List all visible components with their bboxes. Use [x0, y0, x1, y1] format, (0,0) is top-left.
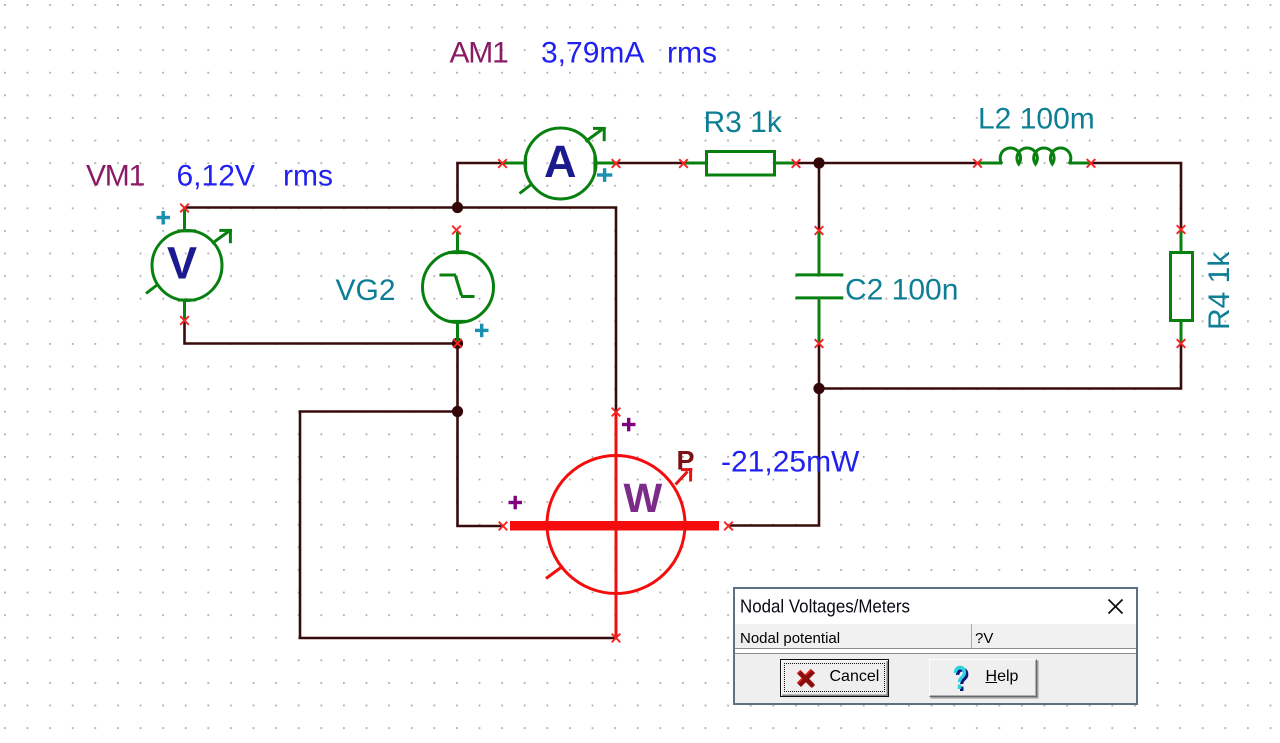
voltmeter VM1 body	[146, 210, 232, 321]
terminal x VG2 bottom	[453, 339, 462, 348]
wire: R4 bottom left to node under C2	[819, 344, 1181, 389]
plus sign wattmeter top	[622, 418, 636, 432]
terminal x VM1 top	[180, 204, 189, 213]
svg-text:Nodal Voltages/Meters: Nodal Voltages/Meters	[740, 595, 910, 616]
terminal x AM1 right	[612, 159, 621, 168]
button Cancel	[780, 659, 890, 697]
terminal x VG2 top	[452, 226, 461, 235]
resistor R4	[1171, 231, 1193, 344]
svg-text:L2 100m: L2 100m	[978, 103, 1095, 136]
svg-text:rms: rms	[283, 160, 333, 193]
wire: J2 left, down, right to wattmeter bottom voltage terminal	[300, 412, 616, 639]
wire: L2 right then down to R4 top	[1090, 163, 1182, 230]
wire: VM1 top to node J1	[185, 206, 458, 209]
terminal x R4 bottom	[1177, 339, 1186, 348]
svg-text:R3 1k: R3 1k	[704, 106, 783, 139]
terminal x L2 right	[1087, 159, 1096, 168]
terminal x W1 right	[724, 522, 733, 531]
wire: J1 right then down to wattmeter voltage top terminal	[458, 208, 617, 413]
terminal x L2 left	[973, 159, 982, 168]
svg-text:R4 1k: R4 1k	[1203, 251, 1236, 330]
junction node VG2 bottom	[452, 338, 463, 349]
capacitor C2	[796, 231, 844, 344]
resistor R3	[684, 152, 797, 176]
wire: R3 right through node to L2 left	[796, 162, 978, 165]
terminal x C2 top	[815, 226, 824, 235]
svg-text:P: P	[677, 446, 695, 476]
svg-text:3,79mA: 3,79mA	[541, 37, 644, 70]
terminal x R3 left	[679, 159, 688, 168]
wire: ammeter right to R3 left	[616, 162, 684, 165]
wire: C2 bottom through node down then left to wattmeter right terminal	[729, 343, 820, 525]
junction node R3/C2/L2	[813, 157, 824, 168]
dialog row: Nodal potential / ?V	[735, 624, 1136, 649]
junction node J2	[452, 406, 463, 417]
ammeter AM1 body	[503, 127, 617, 199]
wire: J1 up and right to ammeter left terminal	[458, 163, 503, 208]
svg-text:C2 100n: C2 100n	[845, 274, 958, 307]
terminal x W1 voltage top	[612, 408, 621, 417]
terminal x W1 voltage bottom	[612, 634, 621, 643]
terminal x R4 top	[1177, 225, 1186, 234]
terminal x R3 right	[792, 159, 801, 168]
svg-text:VM1: VM1	[86, 160, 145, 193]
junction node C2 bottom / R4	[813, 383, 824, 394]
svg-text:W: W	[624, 475, 663, 521]
terminal x AM1 left	[498, 159, 507, 168]
wire: VG2 bottom node down to J2 and on to wattmeter left terminal	[458, 344, 504, 527]
button Help	[929, 659, 1037, 697]
dialog title bar	[735, 589, 1136, 626]
terminal x W1 left	[499, 522, 508, 531]
plus sign VM1	[157, 211, 171, 225]
svg-text:VG2: VG2	[336, 274, 396, 307]
svg-text:AM1: AM1	[450, 37, 509, 70]
wattmeter P arrow	[676, 468, 693, 485]
svg-text:?: ?	[952, 664, 967, 696]
svg-text:rms: rms	[667, 37, 717, 70]
wire: node above C2 down to C2 top terminal	[818, 163, 821, 231]
plus sign AM1	[597, 168, 612, 182]
terminal x VM1 bottom	[180, 316, 189, 325]
inductor L2	[978, 148, 1090, 164]
generator VG2 body	[423, 232, 494, 341]
wattmeter W1 body	[510, 412, 719, 638]
svg-text:V: V	[167, 238, 197, 289]
plus sign VG2	[475, 324, 489, 338]
junction node J1	[452, 202, 463, 213]
dialog Nodal Voltages/Meters	[733, 587, 1138, 705]
wire: VM1 bottom to VG2 bottom node	[185, 321, 458, 344]
dialog close button	[1107, 598, 1124, 615]
terminal x C2 bottom	[815, 339, 824, 348]
svg-text:6,12V: 6,12V	[177, 160, 255, 193]
svg-text:A: A	[544, 136, 577, 187]
svg-text:-21,25mW: -21,25mW	[721, 446, 860, 479]
plus sign wattmeter left	[509, 496, 523, 510]
